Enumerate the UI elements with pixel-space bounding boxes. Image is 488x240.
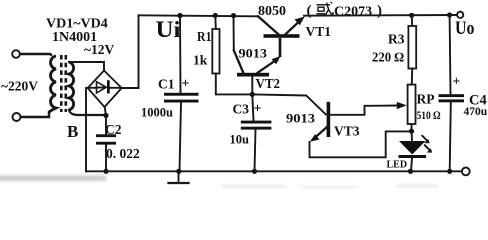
terminal: AC input bottom — [13, 113, 21, 121]
node: RP/LED junction — [409, 129, 414, 134]
wire: base node to VT3 collector — [252, 94, 325, 114]
svg-text:R1: R1 — [197, 29, 212, 44]
svg-text:8050: 8050 — [258, 4, 286, 19]
potentiometer RP body — [408, 85, 416, 124]
capacitor C2 bottom plate — [96, 142, 116, 145]
svg-text:0. 022: 0. 022 — [106, 146, 140, 161]
capacitor C4 top plate — [439, 94, 465, 97]
wire: node down to C2 — [105, 116, 107, 135]
bridge rectifier VD1-VD4 diamond — [88, 71, 122, 108]
svg-text:C1: C1 — [158, 77, 175, 92]
svg-text:10u: 10u — [230, 133, 250, 147]
bridge diode cathode lead — [110, 87, 120, 89]
wire: bottom rail — [86, 170, 462, 172]
svg-text:1N4001: 1N4001 — [52, 30, 97, 45]
wire: secondary bottom to node below bridge — [69, 110, 106, 115]
svg-text:1000u: 1000u — [141, 106, 173, 120]
wire: R1 bottom to base node — [216, 74, 253, 95]
wire: AC top lead to primary — [21, 54, 53, 56]
svg-text:1k: 1k — [193, 53, 208, 68]
svg-text:B: B — [67, 122, 78, 141]
svg-text:220 Ω: 220 Ω — [372, 50, 405, 65]
svg-text:RP: RP — [417, 92, 435, 107]
svg-text:470u: 470u — [464, 106, 488, 118]
wire: rail down to C4 — [449, 15, 452, 94]
capacitor C3 top plate — [241, 121, 272, 124]
LED triangle — [399, 141, 426, 155]
wire: top rail right segment (Uo rail) — [304, 14, 457, 17]
node: base drive node — [250, 92, 255, 97]
svg-text:9013: 9013 — [286, 110, 316, 125]
wire: RP bottom to LED node — [411, 124, 413, 131]
resistor R3 — [408, 26, 416, 69]
wire: bridge + output to top rail — [122, 15, 139, 88]
wire: rail to R3 — [411, 15, 414, 26]
wire: VT3 emitter loop to LED node — [310, 131, 410, 157]
svg-text:Uo: Uo — [455, 18, 475, 39]
svg-text:C2: C2 — [105, 122, 122, 137]
transistor VT2 base bar — [237, 73, 269, 77]
svg-text:C3: C3 — [233, 102, 250, 117]
ground — [178, 171, 180, 182]
svg-text:+: + — [254, 102, 262, 117]
wire: rail down to C1 — [179, 16, 182, 93]
wire: node to LED anode — [411, 131, 414, 141]
bridge diode anode lead — [90, 87, 97, 89]
wire: C1 to bottom rail — [180, 103, 182, 172]
hanzi 或 hand-drawn — [317, 2, 334, 16]
transformer B primary winding — [49, 56, 56, 112]
wire: bridge AC bottom vertex to node — [105, 107, 106, 116]
transistor VT3 base bar — [327, 102, 331, 137]
transistor VT1 base line — [279, 38, 282, 57]
svg-text:VT3: VT3 — [334, 124, 360, 139]
transistor VT3 emitter with arrow — [317, 127, 327, 136]
svg-text:): ) — [377, 3, 382, 19]
wire: VT2 base down to node — [251, 77, 253, 95]
terminal: AC input top — [12, 50, 20, 58]
transistor VT2 collector diagonal — [234, 50, 244, 73]
resistor R1 — [212, 29, 219, 74]
wire: bridge - output down to bottom rail — [86, 88, 88, 171]
wire: C3 to bottom rail — [255, 130, 256, 172]
node: C2 on bottom rail — [103, 169, 108, 174]
svg-text:VT2: VT2 — [256, 76, 281, 91]
terminal: output positive Uo — [457, 12, 463, 18]
svg-text:510 Ω: 510 Ω — [417, 110, 441, 122]
wire: rail to R1 — [214, 16, 217, 30]
node: secondary-bottom junction — [103, 113, 108, 118]
transformer core bar left — [60, 55, 63, 112]
capacitor C4 bottom plate — [439, 99, 465, 102]
svg-text:LED: LED — [387, 159, 408, 170]
svg-text:+: + — [453, 74, 461, 89]
svg-text:VT1: VT1 — [306, 24, 332, 39]
bridge diode cathode bar — [107, 80, 110, 93]
capacitor C3 bottom plate — [241, 127, 272, 130]
wire: R3 to RP — [411, 69, 413, 85]
svg-text:9013: 9013 — [239, 46, 268, 61]
svg-text:+: + — [182, 77, 190, 92]
wire: C2 to bottom rail — [105, 145, 107, 172]
wire: VT3 base to RP wiper arrow — [330, 106, 397, 115]
LED emission arrow 2 — [425, 145, 430, 150]
node: C1/ground on bottom rail — [176, 169, 181, 174]
transistor VT2 emitter with arrow — [258, 62, 275, 73]
node: C3 on bottom rail — [252, 169, 257, 174]
wire: AC bottom lead to primary — [21, 111, 49, 117]
node: R3 top on rail — [409, 13, 414, 18]
wire: C3 from base node down — [252, 94, 253, 120]
node: C1 top — [177, 13, 182, 18]
transistor VT1 collector diagonal from rail — [258, 16, 278, 34]
LED cathode bar — [399, 155, 427, 158]
wire: C4 to bottom rail — [450, 102, 451, 171]
transformer core bar right — [65, 55, 68, 112]
svg-text:Ui: Ui — [156, 17, 182, 42]
wire: LED cathode to bottom rail — [411, 158, 412, 171]
node: C4 on bottom rail — [447, 169, 452, 174]
transformer B secondary winding — [69, 62, 74, 110]
wire: top rail left segment (Ui rail) — [139, 14, 259, 17]
capacitor C2 top plate — [96, 134, 116, 137]
transistor VT1 emitter with arrow — [286, 24, 298, 35]
bridge diode triangle — [97, 82, 107, 93]
wire: secondary top to bridge AC top — [69, 62, 104, 71]
svg-text:C2073: C2073 — [334, 5, 372, 20]
terminal: output negative — [462, 168, 470, 176]
transistor VT1 base bar — [264, 34, 300, 38]
node: VT2 collector on rail — [231, 13, 236, 18]
scan smudge marks (decorative) — [0, 176, 438, 189]
node: R1 top — [213, 13, 218, 18]
capacitor C1 top plate — [164, 93, 199, 96]
svg-text:R3: R3 — [388, 32, 405, 47]
svg-text:~220V: ~220V — [1, 79, 38, 94]
LED emission arrow 1 — [422, 136, 427, 141]
capacitor C1 bottom plate — [164, 100, 199, 103]
node: C4 top on rail — [447, 12, 452, 17]
node: LED on bottom rail — [408, 169, 413, 174]
wire: rail down to VT2 collector — [233, 16, 235, 51]
